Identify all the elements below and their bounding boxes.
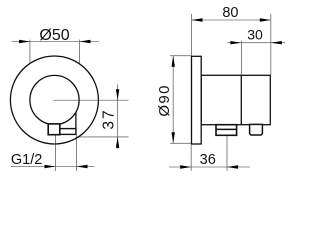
outlet square front — [48, 124, 60, 135]
svg-text:Ø90: Ø90 — [156, 84, 173, 117]
body divider line — [240, 75, 242, 124]
dim 30 left extension line — [240, 41, 242, 76]
dim 36 right arrow — [227, 165, 238, 168]
dim Ø50 right arrow — [80, 40, 91, 43]
dim 80/30 right extension line — [270, 14, 272, 75]
dim Ø50 right extension line — [79, 40, 81, 65]
dim 30 dimension line — [227, 42, 285, 44]
dim 37 bottom extension line — [76, 136, 129, 138]
dim Ø90 top extension line — [170, 55, 191, 57]
dim Ø50 dimension line — [12, 41, 100, 43]
knob band front — [60, 129, 76, 135]
svg-text:G1/2: G1/2 — [11, 152, 42, 168]
dim 80 dimension line — [192, 19, 271, 21]
knob below body — [250, 124, 263, 135]
node centerline (37 top extension) — [54, 99, 129, 101]
svg-text:80: 80 — [222, 5, 238, 21]
hose outlet divider — [216, 128, 237, 130]
dim 80 left extension line — [191, 14, 193, 56]
dim 37 top arrow — [116, 89, 119, 100]
dim bottom right arrow — [77, 165, 88, 168]
svg-text:Ø50: Ø50 — [39, 27, 69, 44]
svg-text:37: 37 — [101, 108, 118, 129]
dim Ø50 left arrow — [19, 40, 30, 43]
dim Ø50 left extension line — [29, 40, 31, 64]
dim 36 left extension line — [190, 145, 192, 171]
dim 36 right extension line — [226, 136, 228, 171]
dim 36 left arrow — [180, 165, 191, 168]
dim Ø90 bottom arrow — [172, 132, 175, 143]
hose outlet side — [216, 125, 237, 136]
dim Ø90 dimension line — [172, 56, 174, 144]
dim Ø90 bottom extension line — [170, 142, 191, 144]
dim 36 dimension line — [169, 166, 250, 168]
dim 80 left arrow — [192, 18, 203, 21]
dim Ø90 top arrow — [172, 56, 175, 67]
dim 30 right arrow — [271, 41, 282, 44]
outer circle (escutcheon Ø90) — [10, 56, 98, 144]
wall flange — [192, 56, 202, 144]
svg-text:36: 36 — [200, 152, 216, 168]
knob edge line front — [75, 112, 77, 128]
dim bottom right extension line — [76, 135, 78, 171]
inner circle (Ø50) — [30, 75, 79, 124]
dim 37 dimension line — [117, 85, 119, 149]
dim 37 bottom arrow — [116, 137, 119, 148]
svg-text:30: 30 — [247, 27, 263, 43]
dim 30 left arrow — [230, 41, 241, 44]
dim G1/2 bottom dimension line — [11, 166, 95, 168]
dim bottom left extension line — [55, 135, 57, 171]
dim bottom left arrow — [45, 165, 56, 168]
body block — [201, 75, 270, 124]
dim 80 right arrow — [260, 18, 271, 21]
